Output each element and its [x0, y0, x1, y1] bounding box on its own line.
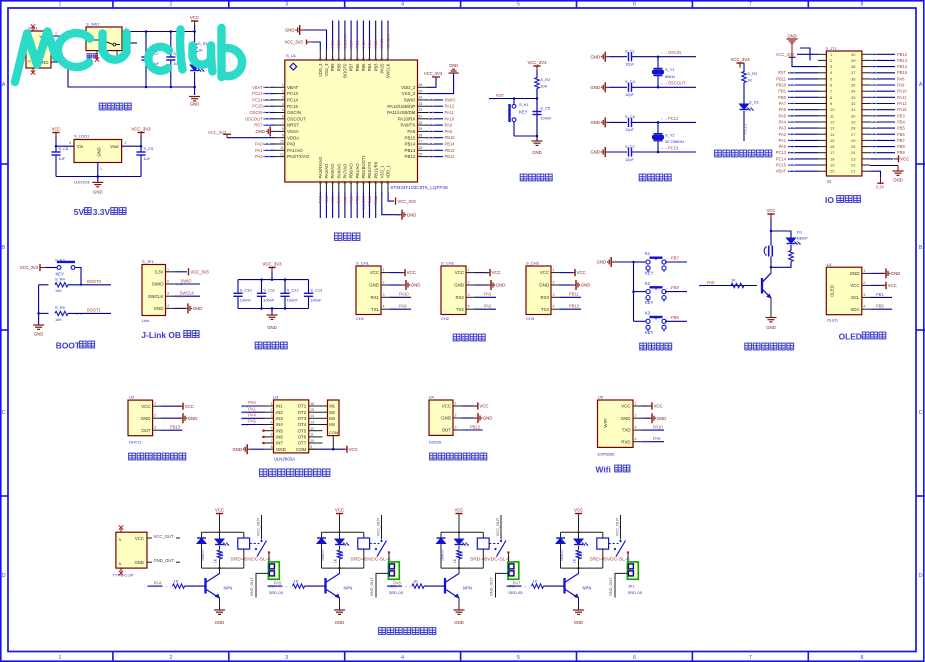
svg-text:PB7: PB7 [671, 256, 679, 261]
svg-text:5: 5 [282, 108, 284, 112]
svg-text:NPN: NPN [344, 586, 353, 591]
svg-text:33: 33 [419, 102, 423, 106]
capacitor S_C8 [51, 151, 60, 153]
pin 14 [818, 133, 826, 135]
pin 3 [275, 99, 285, 101]
caption 热释电感应模块 [430, 453, 437, 460]
svg-text:S_U1: S_U1 [286, 53, 297, 58]
wire base [148, 585, 163, 587]
wire [219, 532, 221, 539]
ground [532, 140, 543, 142]
svg-text:VCC_OUT: VCC_OUT [496, 517, 500, 536]
svg-text:PB11: PB11 [569, 292, 579, 297]
pin 17 [818, 152, 826, 154]
svg-text:18: 18 [830, 156, 835, 161]
svg-text:1K: 1K [533, 579, 538, 584]
wire [496, 573, 508, 597]
caption 继电器控制电路 [379, 628, 386, 635]
svg-text:10: 10 [830, 107, 835, 112]
svg-text:K3: K3 [645, 311, 651, 316]
svg-text:IN7: IN7 [276, 441, 283, 446]
svg-text:KEY: KEY [519, 110, 528, 115]
svg-text:S_C11: S_C11 [263, 288, 275, 293]
wire [475, 272, 489, 274]
svg-text:VCC_3V3: VCC_3V3 [285, 40, 304, 45]
wire [870, 133, 895, 135]
svg-text:2: 2 [125, 141, 127, 145]
pin 21 [862, 170, 870, 172]
wire [578, 518, 580, 533]
svg-text:2: 2 [282, 89, 284, 93]
svg-text:PB5: PB5 [897, 126, 905, 131]
svg-text:13: 13 [830, 126, 835, 131]
wire [427, 99, 443, 101]
svg-text:2: 2 [455, 414, 457, 418]
svg-text:S_Y2: S_Y2 [665, 132, 675, 137]
wire [387, 21, 389, 51]
pin 12 [275, 156, 285, 158]
pin 36 [418, 86, 428, 88]
svg-text:23: 23 [380, 180, 384, 184]
svg-text:1: 1 [100, 167, 102, 171]
svg-text:PA4: PA4 [779, 120, 787, 125]
svg-text:S_C4: S_C4 [625, 79, 636, 84]
wire [788, 127, 818, 129]
svg-text:M1: M1 [329, 404, 335, 409]
svg-text:PB1: PB1 [778, 89, 786, 94]
svg-text:100nF: 100nF [287, 298, 299, 303]
wire [242, 424, 265, 426]
svg-text:1: 1 [59, 2, 62, 8]
svg-text:VCC_3V3: VCC_3V3 [730, 57, 750, 62]
svg-text:GND: GND [141, 416, 151, 421]
svg-text:GND_OUT: GND_OUT [609, 577, 613, 596]
ground [214, 609, 225, 611]
diode [215, 539, 224, 545]
svg-text:U3: U3 [273, 395, 279, 400]
svg-text:8: 8 [282, 127, 284, 131]
pin 12 [818, 121, 826, 123]
svg-text:PB4: PB4 [897, 120, 905, 125]
svg-text:OLED: OLED [827, 318, 838, 323]
svg-text:VCC: VCC [888, 283, 897, 288]
svg-text:SCL: SCL [851, 295, 860, 300]
svg-text:ESP8266: ESP8266 [598, 452, 616, 457]
pin 21 to 3.3V [870, 171, 880, 177]
pin 39 [375, 50, 377, 60]
svg-text:OT1: OT1 [298, 404, 307, 409]
svg-text:S_C10: S_C10 [240, 288, 253, 293]
svg-text:RX1: RX1 [370, 295, 379, 300]
svg-text:1: 1 [863, 269, 865, 273]
svg-text:1N4007: 1N4007 [201, 549, 205, 561]
svg-text:4: 4 [553, 305, 555, 309]
transistor NPN [204, 578, 206, 594]
svg-text:8: 8 [271, 445, 273, 449]
pushbutton K2 [650, 286, 663, 288]
svg-text:1: 1 [154, 402, 156, 406]
svg-text:S_JT1: S_JT1 [825, 46, 837, 51]
svg-text:32.768KHz: 32.768KHz [665, 139, 684, 144]
block: PIR module [429, 395, 493, 460]
svg-text:PB1: PB1 [876, 292, 884, 297]
svg-text:GND: GND [766, 325, 776, 330]
wire [458, 546, 460, 550]
wire [427, 118, 443, 120]
wire [174, 283, 200, 285]
wire [797, 53, 818, 55]
pin 29 [418, 130, 428, 132]
svg-text:GND: GND [581, 283, 591, 288]
diode [574, 539, 583, 545]
ground [893, 170, 904, 172]
svg-text:GND: GND [232, 447, 242, 452]
wire [578, 568, 580, 574]
pin 16 [818, 146, 826, 148]
pin 2 [153, 417, 161, 419]
wire [267, 554, 270, 566]
wire [870, 96, 895, 98]
pin 14 [325, 182, 327, 192]
svg-text:3: 3 [863, 293, 865, 297]
svg-text:PB3: PB3 [373, 63, 378, 72]
svg-text:S_C6: S_C6 [625, 114, 635, 119]
svg-text:5: 5 [517, 2, 520, 8]
svg-text:2: 2 [167, 280, 169, 284]
wire [219, 598, 221, 611]
svg-text:PB7: PB7 [349, 63, 354, 72]
wire [427, 143, 443, 145]
diode S_D2 [740, 104, 749, 110]
svg-text:S_C12: S_C12 [287, 288, 299, 293]
svg-text:VCC: VCC [492, 270, 501, 275]
svg-text:VCC_OUT: VCC_OUT [154, 534, 174, 539]
wire [319, 192, 321, 218]
svg-text:PA9: PA9 [897, 83, 905, 88]
svg-text:PA2/TX/AO: PA2/TX/AO [287, 154, 310, 159]
svg-text:RX3: RX3 [540, 295, 549, 300]
svg-text:PB9: PB9 [897, 150, 905, 155]
svg-text:2: 2 [383, 281, 385, 285]
wire [870, 72, 895, 74]
svg-text:16: 16 [830, 144, 835, 149]
svg-text:VSS_1: VSS_1 [379, 165, 384, 179]
pin 12 [309, 430, 318, 432]
wire [174, 295, 200, 297]
svg-text:PB13: PB13 [445, 148, 456, 153]
resistor [337, 550, 341, 559]
svg-text:32: 32 [851, 101, 856, 106]
pin 30 [418, 124, 428, 126]
svg-text:VCC_3V3: VCC_3V3 [424, 71, 443, 76]
ground [178, 417, 183, 419]
svg-text:35: 35 [851, 83, 856, 88]
svg-text:GND_OUT: GND_OUT [370, 577, 374, 596]
svg-text:46: 46 [331, 58, 335, 62]
caption 串口电路 [453, 334, 460, 341]
wire [870, 84, 895, 86]
ground [647, 417, 652, 419]
svg-text:VCC: VCC [540, 270, 549, 275]
svg-text:PB6: PB6 [355, 40, 360, 48]
svg-text:GND: GND [454, 620, 464, 625]
svg-text:1: 1 [468, 268, 470, 272]
svg-text:BOOT0: BOOT0 [342, 34, 347, 48]
svg-text:40: 40 [368, 58, 372, 62]
svg-text:RX2: RX2 [455, 295, 464, 300]
wire [788, 158, 818, 160]
svg-text:40: 40 [851, 52, 856, 57]
svg-text:3: 3 [285, 655, 288, 661]
wire [51, 35, 86, 37]
resistor [576, 550, 580, 559]
wire [870, 146, 895, 148]
block: temperature-humidity module [128, 395, 197, 460]
pin 13 [309, 424, 318, 426]
svg-text:30: 30 [851, 113, 856, 118]
wire [578, 598, 580, 611]
diode [437, 537, 446, 539]
ground [33, 324, 44, 326]
svg-text:36: 36 [851, 76, 856, 81]
wire [771, 231, 791, 238]
wire [475, 296, 497, 298]
svg-text:4: 4 [282, 102, 284, 106]
svg-text:2: 2 [154, 414, 156, 418]
svg-text:4: 4 [167, 304, 169, 308]
pin 9 [818, 103, 826, 105]
svg-text:PC15: PC15 [668, 145, 679, 150]
svg-text:PA9: PA9 [653, 436, 661, 441]
wire rails [238, 279, 309, 281]
pin 23 [381, 182, 383, 192]
svg-text:PA15: PA15 [379, 38, 384, 48]
svg-text:LDO3V3: LDO3V3 [74, 179, 90, 184]
svg-text:29: 29 [851, 120, 856, 125]
wire [800, 48, 810, 61]
svg-text:B: B [2, 245, 6, 251]
pin 2 [466, 284, 475, 286]
svg-text:1K: 1K [198, 48, 203, 53]
diode [335, 539, 344, 545]
svg-text:SRD-05: SRD-05 [508, 590, 523, 595]
svg-text:Wifi: Wifi [596, 465, 611, 475]
svg-text:A: A [919, 82, 923, 88]
pin 44 [344, 50, 346, 60]
svg-text:VCC: VCC [141, 404, 150, 409]
svg-text:PB0/AO: PB0/AO [349, 163, 354, 179]
no-ERC mark [119, 525, 123, 529]
ground [486, 284, 491, 286]
svg-text:BOOT0: BOOT0 [87, 279, 102, 284]
svg-text:43: 43 [349, 58, 353, 62]
svg-text:NPN: NPN [583, 586, 592, 591]
svg-text:PB13: PB13 [170, 425, 181, 430]
watermark MCUclub [15, 28, 242, 82]
capacitor branch S_C11 [261, 280, 263, 294]
pin 7 [265, 442, 274, 444]
svg-text:TX2: TX2 [456, 307, 465, 312]
wire [174, 271, 187, 273]
svg-text:CH2: CH2 [441, 316, 450, 321]
row BOOT0 [39, 284, 49, 286]
svg-text:Link: Link [142, 318, 149, 323]
block: stepper motor driver [232, 395, 357, 477]
svg-text:4: 4 [271, 420, 273, 424]
svg-text:VCC_3V3: VCC_3V3 [527, 60, 547, 65]
capacitor S_C5 [532, 111, 541, 113]
connector JK [508, 562, 519, 579]
svg-text:38: 38 [380, 58, 384, 62]
wire VSS_2 to GND [427, 73, 454, 94]
no-ERC mark [31, 70, 35, 74]
svg-text:3: 3 [553, 293, 555, 297]
wire [264, 105, 276, 107]
wire [665, 320, 687, 322]
svg-text:GND: GND [657, 416, 667, 421]
wire [870, 272, 884, 274]
svg-text:TXD: TXD [622, 428, 631, 433]
svg-text:VCC: VCC [621, 404, 630, 409]
svg-text:3.3V: 3.3V [93, 207, 111, 217]
svg-text:PC13: PC13 [743, 123, 748, 134]
wire [242, 405, 265, 407]
wire top rail [561, 531, 603, 533]
svg-text:GND: GND [97, 147, 102, 157]
svg-text:4: 4 [468, 305, 470, 309]
svg-text:VCC_3V3: VCC_3V3 [262, 262, 282, 267]
pin 11 [275, 149, 285, 151]
svg-text:17: 17 [830, 150, 835, 155]
svg-text:38: 38 [851, 64, 856, 69]
svg-text:VCC: VCC [407, 270, 416, 275]
wire [332, 21, 334, 51]
svg-text:GND: GND [539, 283, 549, 288]
svg-text:S_CH3: S_CH3 [526, 261, 540, 266]
wire [870, 66, 895, 68]
pin 34 [418, 99, 428, 101]
pin 5 [265, 430, 274, 432]
wire [870, 127, 895, 129]
svg-text:GND_OUT: GND_OUT [490, 577, 494, 596]
svg-text:S_C8: S_C8 [58, 146, 68, 151]
IC ULN2803A body [274, 400, 309, 453]
pin 7 [275, 124, 285, 126]
ground [449, 72, 459, 74]
wire [362, 21, 364, 51]
wire bottom rail [202, 567, 244, 569]
svg-text:S_CH2: S_CH2 [441, 261, 455, 266]
svg-text:PA4: PA4 [248, 413, 256, 418]
svg-text:PA11: PA11 [445, 110, 455, 115]
pin 2 [166, 283, 175, 285]
connector JK [627, 562, 638, 579]
pin 6 [275, 118, 285, 120]
svg-text:VDD_3: VDD_3 [318, 63, 323, 77]
svg-text:IN4: IN4 [276, 422, 283, 427]
svg-text:3: 3 [154, 426, 156, 430]
wire [788, 96, 818, 98]
svg-text:11: 11 [280, 146, 284, 150]
svg-text:PA1: PA1 [779, 138, 787, 143]
row BOOT1 [39, 312, 49, 314]
transistor NPN [761, 278, 763, 294]
svg-text:6: 6 [271, 433, 273, 437]
svg-text:PA5: PA5 [779, 113, 787, 118]
svg-text:1: 1 [282, 83, 284, 87]
switch unused pins [96, 51, 98, 58]
pin 10 [275, 143, 285, 145]
svg-text:1K: 1K [453, 558, 457, 563]
svg-text:RST: RST [254, 123, 263, 128]
svg-text:DHT11: DHT11 [129, 440, 142, 445]
svg-text:10K: 10K [55, 317, 62, 322]
svg-text:S_C7: S_C7 [625, 144, 635, 149]
svg-text:S_R1: S_R1 [198, 41, 208, 46]
resistor [457, 550, 461, 559]
wire [788, 121, 818, 123]
svg-text:OLED: OLED [839, 332, 862, 342]
no connect marker [262, 442, 264, 444]
IC DHT11 body [128, 400, 153, 436]
svg-text:PA8: PA8 [445, 129, 453, 134]
svg-text:VCC: VCC [577, 270, 586, 275]
capacitor branch S_C13 [308, 280, 310, 294]
block: BOOT circuit [20, 257, 111, 350]
svg-text:8: 8 [861, 2, 864, 8]
no-ERC mark [95, 57, 99, 61]
wire VSS_1 to GND [382, 192, 400, 215]
svg-text:VCC_OUT: VCC_OUT [376, 517, 380, 536]
svg-text:PA10: PA10 [653, 425, 663, 430]
wire [51, 62, 195, 87]
wire [427, 130, 443, 132]
wire [615, 573, 627, 597]
pin 8 [818, 96, 826, 98]
wire [375, 192, 377, 218]
resistor [731, 283, 744, 287]
svg-text:1K: 1K [413, 579, 418, 584]
IC ESP8266 body [598, 400, 634, 447]
wire [219, 559, 221, 568]
svg-text:PB12: PB12 [445, 154, 456, 159]
svg-text:GND: GND [154, 306, 164, 311]
wire [427, 105, 443, 107]
pin 15 [332, 182, 334, 192]
pin 27 [418, 143, 428, 145]
pin 20 [818, 170, 826, 172]
svg-text:17: 17 [343, 180, 347, 184]
svg-text:6: 6 [282, 115, 284, 119]
svg-text:PB1: PB1 [355, 195, 360, 203]
svg-text:1N4007: 1N4007 [441, 549, 445, 561]
svg-text:GND: GND [893, 178, 903, 183]
svg-text:1K: 1K [294, 579, 299, 584]
IC D203S body [429, 400, 453, 435]
svg-text:COM: COM [329, 430, 338, 435]
svg-text:NPN: NPN [224, 586, 233, 591]
svg-text:OSCIN: OSCIN [250, 110, 263, 115]
svg-text:PB5: PB5 [361, 40, 366, 48]
svg-text:7: 7 [749, 2, 752, 8]
capacitor S_C12 [280, 292, 289, 294]
svg-text:VCC: VCC [850, 283, 859, 288]
pin 43 [350, 50, 352, 60]
resistor S_R4 [55, 283, 68, 287]
svg-text:PA10: PA10 [445, 116, 455, 121]
svg-text:44: 44 [343, 58, 347, 62]
svg-text:35: 35 [419, 89, 423, 93]
